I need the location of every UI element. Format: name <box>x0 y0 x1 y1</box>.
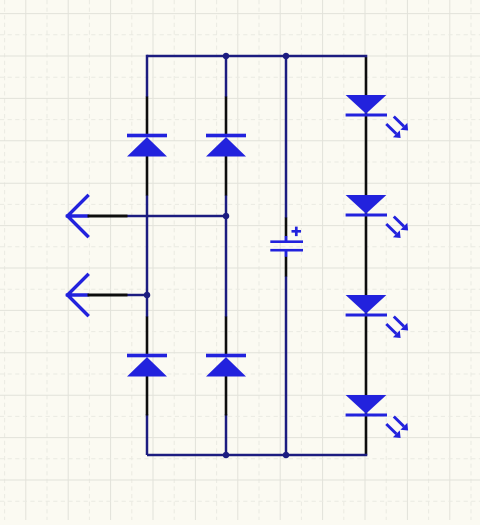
diode D3 <box>127 317 167 416</box>
wire AC input 1 to column2 <box>127 215 226 218</box>
wire bottom bus <box>147 454 367 457</box>
junction AC2 / column1 <box>144 292 151 299</box>
junction top bus / column2 <box>223 53 230 60</box>
wire top bus <box>147 55 367 58</box>
wire capacitor column lower <box>285 276 288 455</box>
AC input terminal AC2 (arrow) <box>68 275 128 315</box>
junction AC1 / column2 <box>223 213 230 220</box>
capacitor C1 <box>270 218 303 277</box>
diode D2 <box>206 97 246 196</box>
LED LED1 <box>346 95 409 138</box>
wire column2 middle <box>225 195 228 317</box>
junction top bus / capacitor <box>283 53 290 60</box>
junction bottom bus / column2 <box>223 452 230 459</box>
junction bottom bus / capacitor <box>283 452 290 459</box>
AC input terminal AC1 (arrow) <box>68 196 128 236</box>
diode D1 <box>127 97 167 196</box>
wire AC input 2 to column1 <box>127 294 147 297</box>
wire column1 lower <box>146 414 149 455</box>
wire column2 upper <box>225 56 228 97</box>
wire column1 upper <box>146 55 149 97</box>
LED LED3 <box>346 295 409 338</box>
diode D4 <box>206 317 246 416</box>
LED LED4 <box>346 395 409 438</box>
wire column1 middle <box>146 195 149 317</box>
LED column pins (LED1-LED4 leads) <box>365 57 368 455</box>
wire capacitor column upper <box>285 56 288 218</box>
wire column2 lower <box>225 414 228 455</box>
LED LED2 <box>346 195 409 238</box>
